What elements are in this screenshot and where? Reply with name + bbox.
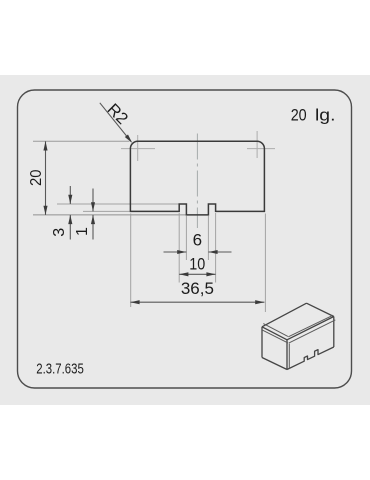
extension line notch right (10 dim): [215, 213, 217, 283]
tangent below front-left edge (end face): [263, 330, 289, 343]
svg-text:1: 1: [74, 227, 91, 236]
R2 leader arrow: [100, 103, 131, 142]
extension line outer-bottom level (1 dim): [83, 210, 130, 212]
extension line bottom (20 dim, tongue bottom level): [33, 214, 186, 216]
iso block front-right top edge: [287, 317, 334, 340]
dim 10 line: [179, 273, 215, 275]
center mark right corner: [247, 131, 275, 158]
iso block end-face bottom edge: [262, 358, 287, 370]
gray panel background: [0, 75, 370, 405]
dim 20 line: [45, 141, 47, 215]
iso block right-face bottom edge with groove notches: [287, 347, 334, 370]
extension line tongue left wall (6 dim): [185, 216, 187, 260]
dim 36,5 line: [130, 301, 264, 303]
iso block left vertical edge: [261, 327, 263, 358]
iso block right vertical edge: [333, 317, 335, 348]
tangent below front-right edge (right face): [289, 320, 335, 343]
extension line notch-top level (3 dim): [57, 203, 184, 205]
svg-text:20: 20: [28, 169, 45, 186]
dim 1 line: [92, 189, 94, 212]
dim 3 line: [69, 186, 71, 204]
iso block front vertical edge: [286, 340, 288, 370]
centerline vertical: [196, 134, 198, 229]
svg-text:36,5: 36,5: [181, 279, 214, 298]
tangent right of front vertical edge: [288, 344, 290, 369]
iso block front-left top edge: [262, 327, 287, 340]
dim 6 lines: [164, 251, 187, 253]
card border: [18, 90, 352, 388]
svg-text:10: 10: [189, 255, 205, 274]
extension line notch left (10 dim): [178, 213, 180, 283]
iso block back-right top edge: [307, 303, 334, 316]
center mark left corner: [121, 135, 155, 161]
part outline (die profile): [130, 141, 264, 215]
tangent above front-right edge (top face): [288, 315, 333, 337]
tangent above front-left edge (top face): [263, 324, 288, 337]
iso block rounded-edge tangent lines: [263, 315, 336, 368]
extension line part right (36,5 dim): [264, 214, 266, 313]
iso block top face edges: [262, 303, 334, 369]
extension line part left (36,5 dim): [130, 214, 132, 308]
svg-text:6: 6: [193, 231, 202, 250]
svg-text:3: 3: [51, 228, 68, 237]
svg-text:2.3.7.635: 2.3.7.635: [36, 362, 84, 378]
iso block back-left top edge: [262, 303, 307, 327]
extension line top (20 dim, level 0 top): [33, 140, 130, 142]
extension line tongue right wall (6 dim): [207, 216, 209, 260]
